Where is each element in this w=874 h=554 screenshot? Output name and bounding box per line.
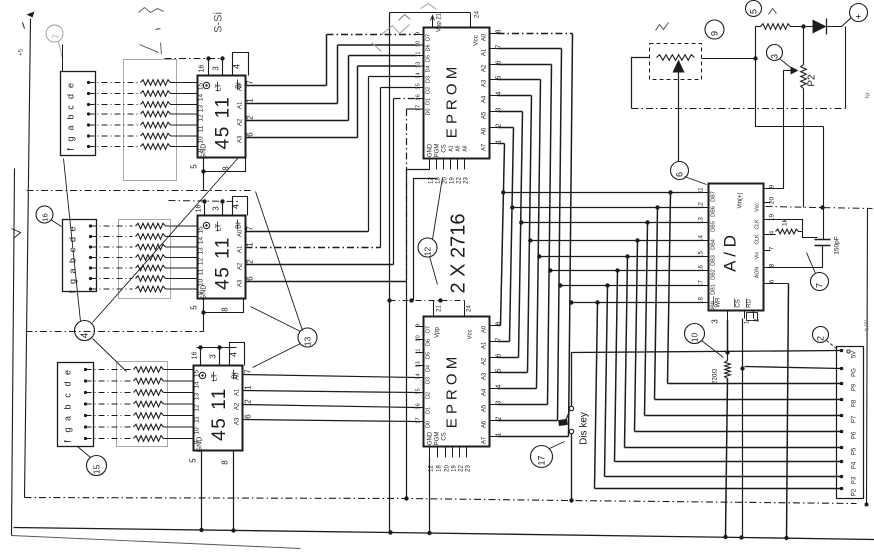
P2 wiper arrow: [791, 67, 799, 75]
data bus EPROM U4 to U1 (4 wires): [327, 34, 416, 36]
A/D WR wire to bottom bus: [727, 320, 729, 353]
svg-text:24: 24: [467, 305, 473, 312]
potentiometer P2 resistor: [803, 27, 805, 65]
svg-text:10: 10: [194, 427, 201, 435]
A/D CS row to connector: [745, 367, 842, 369]
svg-text:A7: A7: [482, 143, 488, 151]
pointer circled 4 up-left to DS1: [64, 159, 81, 322]
svg-text:S-Si: S-Si: [213, 12, 225, 33]
svg-text:3: 3: [212, 206, 221, 211]
EPROM U4 PGM wire down: [414, 179, 437, 301]
svg-text:2 X 2716: 2 X 2716: [448, 213, 470, 293]
U1 ground bracket pins 5,8: [204, 158, 246, 172]
resistor network box RN3: [117, 362, 168, 447]
resistor network box RN2: [119, 220, 171, 299]
svg-text:23: 23: [466, 465, 472, 472]
svg-text:4: 4: [231, 204, 241, 209]
svg-text:g: g: [66, 136, 76, 141]
A/D U6 right pin stubs and numbers: [764, 188, 771, 190]
wire diode node down right side: [845, 27, 847, 109]
EPROM U4 Vcc pin 24: [470, 13, 472, 28]
display connector DS3 box: [58, 363, 94, 447]
svg-text:4: 4: [229, 352, 239, 357]
svg-text:13: 13: [416, 361, 422, 367]
node dot diode anode: [801, 24, 805, 28]
svg-text:A3: A3: [482, 79, 488, 87]
svg-text:7: 7: [815, 283, 825, 288]
svg-text:AGN: AGN: [755, 267, 761, 278]
scribble label above P1: [656, 23, 669, 31]
svg-text:DB1: DB1: [711, 284, 717, 295]
svg-text:e: e: [63, 370, 73, 375]
svg-text:PGM: PGM: [435, 432, 441, 446]
svg-text:16: 16: [196, 205, 203, 213]
output connector J1 box: [837, 347, 864, 499]
U2 pin16 stub: [204, 202, 206, 216]
P2 wire down to A/D Vcc: [803, 89, 805, 208]
svg-text:11: 11: [416, 51, 422, 57]
svg-text:A / D: A / D: [721, 235, 740, 272]
svg-text:17: 17: [416, 417, 422, 423]
circled 4: [75, 321, 95, 341]
svg-text:1k: 1k: [782, 218, 789, 226]
potentiometer P1 resistor: [657, 55, 695, 61]
svg-text:P7: P7: [852, 415, 858, 423]
faint scribble top left: [139, 8, 164, 13]
svg-text:D7: D7: [426, 326, 432, 333]
svg-text:7: 7: [246, 226, 255, 231]
wires RN3 to 4511 U3: [164, 369, 194, 371]
A/D data rows (8 horizontals): [505, 192, 701, 194]
svg-text:A3: A3: [238, 279, 244, 287]
svg-text:5: 5: [190, 305, 199, 310]
svg-text:c: c: [66, 105, 76, 110]
U3 pin3 stub: [219, 348, 221, 366]
display DS3 pin dots: [84, 368, 87, 371]
svg-text:Dis key: Dis key: [579, 412, 590, 445]
svg-text:8: 8: [221, 460, 230, 465]
potentiometer P1 wiper arrow: [673, 60, 685, 73]
4511 decoder U1 body: [198, 76, 246, 158]
svg-text:13: 13: [198, 247, 205, 255]
svg-text:D5: D5: [426, 352, 432, 359]
svg-text:A9: A9: [456, 145, 462, 151]
svg-text:9: 9: [198, 291, 205, 295]
ground rail dash-dot under U1: [27, 190, 251, 192]
circled 9: [705, 20, 724, 39]
wires display DS3 to resistors RN3: [86, 369, 131, 371]
svg-text:D2: D2: [426, 87, 432, 94]
svg-text:6: 6: [675, 172, 685, 177]
svg-text:6: 6: [246, 132, 255, 137]
pointer circled 2 to connector: [827, 341, 837, 349]
svg-text:D4: D4: [426, 65, 432, 72]
svg-text:CLK: CLK: [755, 219, 761, 230]
Vcc wire top to left vertical: [390, 12, 471, 14]
svg-text:2: 2: [246, 115, 255, 120]
svg-text:A5: A5: [482, 111, 488, 119]
svg-text:CLK: CLK: [755, 234, 761, 245]
EPROM U4 GND wire to bus1: [407, 170, 430, 498]
svg-text:d: d: [66, 94, 76, 99]
svg-text:11: 11: [194, 416, 201, 423]
svg-text:A0: A0: [238, 83, 244, 91]
svg-text:21: 21: [437, 305, 443, 312]
resistor network RN1 elements: [141, 80, 171, 86]
circled 16: [36, 206, 53, 223]
P1 wiper wire down to circled 6: [678, 73, 680, 162]
svg-text:12: 12: [429, 177, 435, 184]
svg-text:20: 20: [769, 197, 776, 205]
pointer circled 4 up-right to U1 area: [93, 158, 239, 323]
pointer circled 15 to DS3: [78, 447, 91, 458]
svg-text:9: 9: [710, 31, 720, 36]
svg-text:150pF: 150pF: [834, 236, 841, 254]
resistor 1k: [766, 234, 776, 236]
U3 pin16 stub: [200, 348, 202, 366]
right edge vertical to connector: [867, 209, 868, 506]
svg-text:A4: A4: [482, 388, 488, 396]
U1 top tie line (pins 16,3) dash-dot rail: [165, 58, 223, 60]
EPROM U5 Vpp 21 and Vcc 24 top stubs: [433, 301, 435, 317]
svg-text:DB4: DB4: [711, 239, 717, 250]
A/D converter U6 body: [709, 184, 764, 311]
svg-text:E P R O M: E P R O M: [444, 357, 461, 428]
svg-text:7: 7: [52, 34, 61, 39]
svg-text:6: 6: [769, 279, 776, 283]
svg-text:24: 24: [474, 11, 481, 19]
svg-text:D0: D0: [426, 421, 432, 428]
resistor network box RN1: [124, 60, 177, 181]
svg-text:Vin: Vin: [755, 252, 761, 260]
svg-text:19: 19: [450, 177, 456, 184]
resistor network RN2 elements: [136, 223, 166, 229]
svg-text:220Ω: 220Ω: [712, 369, 719, 385]
svg-text:A1: A1: [238, 101, 244, 109]
svg-text:12: 12: [198, 258, 205, 266]
clock RC: pin19 wire: [766, 220, 818, 238]
svg-text:16: 16: [416, 403, 422, 409]
svg-text:A1: A1: [449, 145, 455, 151]
svg-text:12: 12: [194, 404, 201, 412]
svg-text:7: 7: [244, 369, 253, 374]
svg-text:e: e: [66, 83, 76, 88]
P1 right terminal wire: [702, 58, 756, 60]
svg-text:P9: P9: [852, 383, 858, 391]
svg-text:DB2: DB2: [711, 269, 717, 280]
svg-text:14: 14: [198, 94, 205, 102]
display DS2 pin dots: [89, 224, 92, 227]
svg-text:P4: P4: [852, 461, 858, 469]
display connector DS2 box: [63, 220, 97, 292]
U1 pin3 stub: [222, 59, 224, 76]
wire display DS1 top stub: [62, 45, 64, 72]
svg-text:A3: A3: [235, 417, 241, 425]
svg-text:45 11: 45 11: [209, 387, 230, 441]
pointer circled 10 to resistor: [702, 341, 724, 358]
svg-text:13: 13: [699, 217, 705, 224]
svg-text:13: 13: [303, 337, 313, 347]
svg-text:A0: A0: [482, 33, 488, 41]
wires display DS2 to resistors RN2: [91, 225, 133, 227]
U2 top tie line: [169, 201, 239, 202]
svg-text:20: 20: [445, 465, 451, 472]
svg-text:22: 22: [459, 465, 465, 472]
svg-text:A0: A0: [482, 325, 488, 333]
svg-text:12: 12: [423, 247, 433, 257]
svg-text:16: 16: [199, 65, 206, 73]
svg-text:D6: D6: [426, 44, 432, 51]
A/D U6 bottom pins WR CS RD: [727, 311, 729, 320]
svg-text:11: 11: [416, 348, 422, 354]
svg-text:A2: A2: [235, 402, 241, 410]
svg-text:CS: CS: [736, 299, 742, 307]
svg-text:14: 14: [416, 373, 422, 380]
svg-text:P5: P5: [852, 447, 858, 455]
svg-text:D0: D0: [426, 108, 432, 115]
svg-text:D4: D4: [426, 365, 432, 372]
4511 decoder U2 body: [198, 216, 246, 299]
svg-text:11: 11: [198, 268, 205, 275]
svg-text:LT: LT: [212, 373, 219, 381]
svg-text:9: 9: [198, 148, 205, 152]
EPROM U4 right pin stubs, numbers and A labels: [490, 33, 498, 35]
svg-text:10: 10: [198, 279, 205, 287]
svg-text:9: 9: [194, 440, 201, 444]
svg-text:a: a: [68, 268, 78, 273]
EPROM U5 bottom pins: [429, 447, 431, 458]
circled 13: [298, 328, 317, 347]
svg-text:16: 16: [41, 213, 50, 221]
svg-text:45 11: 45 11: [213, 96, 234, 150]
svg-text:3: 3: [212, 66, 221, 71]
svg-text:b: b: [63, 404, 73, 409]
svg-text:4: 4: [769, 230, 776, 234]
svg-text:D3: D3: [426, 76, 432, 83]
svg-text:A6: A6: [482, 127, 488, 135]
svg-text:Vcc: Vcc: [755, 203, 761, 212]
ground rail dash-dot under U2: [26, 331, 204, 333]
svg-text:9: 9: [416, 32, 422, 35]
svg-text:16: 16: [416, 94, 422, 100]
Dis key top wire to connector row: [572, 351, 842, 407]
svg-text:6: 6: [244, 414, 253, 419]
svg-text:5V: 5V: [852, 351, 858, 358]
svg-text:DB6: DB6: [711, 206, 717, 217]
svg-text:A7: A7: [482, 436, 488, 444]
svg-text:8: 8: [221, 307, 230, 312]
svg-text:CS: CS: [442, 432, 448, 440]
wire diode to +V circle: [827, 18, 852, 27]
svg-text:Vpp 21: Vpp 21: [437, 12, 443, 32]
circled 3: [767, 45, 783, 61]
svg-text:13: 13: [416, 62, 422, 68]
svg-text:1: 1: [246, 242, 255, 247]
resistor 220 ohm: [725, 350, 729, 354]
svg-text:7: 7: [246, 80, 255, 85]
svg-text:b.W: b.W: [865, 320, 871, 331]
svg-text:D3: D3: [426, 377, 432, 384]
svg-text:LT: LT: [216, 223, 223, 231]
svg-text:P2: P2: [807, 74, 818, 87]
svg-text:DB7: DB7: [711, 191, 717, 202]
svg-text:2: 2: [816, 336, 826, 341]
svg-text:18: 18: [437, 465, 443, 472]
U2 pin4 bracket: [233, 197, 248, 216]
svg-text:CS: CS: [442, 144, 448, 152]
EPROM U5 right pin stubs and numbers: [490, 325, 498, 327]
potentiometer P1 box: [650, 44, 702, 80]
svg-text:Nr: Nr: [866, 92, 872, 98]
svg-text:A0: A0: [238, 229, 244, 237]
svg-text:A2: A2: [238, 262, 244, 270]
svg-text:b: b: [66, 114, 76, 119]
svg-text:A1: A1: [235, 388, 241, 396]
svg-text:RD: RD: [747, 299, 753, 308]
svg-text:16: 16: [192, 352, 199, 360]
circled 2: [813, 327, 829, 343]
P1 left terminal wire: [632, 58, 650, 109]
svg-text:14: 14: [194, 381, 201, 389]
ground bus1 dash-dot: [25, 498, 857, 504]
left inner border line: [25, 19, 31, 498]
svg-text:D1: D1: [426, 407, 432, 414]
border arrow mark left: [12, 229, 21, 239]
svg-text:c: c: [63, 393, 73, 398]
svg-text:15: 15: [92, 465, 102, 475]
address bus staircase EPROM U4 to A/D rows to EPROM U5: [498, 143, 505, 145]
svg-text:DB3: DB3: [711, 255, 717, 266]
svg-text:P6: P6: [852, 431, 858, 439]
pointer circled 17 to switch: [550, 442, 565, 449]
svg-text:PG: PG: [852, 368, 858, 377]
svg-text:11: 11: [198, 125, 205, 132]
U3 pin1 mark and LT BI labels: [199, 372, 205, 378]
EPROM U5 left pin stubs and labels: [416, 326, 424, 328]
svg-text:A2: A2: [238, 118, 244, 126]
Dis key switch: [569, 406, 573, 410]
svg-text:Vcc: Vcc: [468, 329, 474, 339]
capacitor 150pF: [823, 127, 825, 208]
EPROM U5 GND wire to bottom bus: [429, 458, 431, 533]
svg-text:15: 15: [699, 251, 705, 258]
U2 pin1 mark and LT BI labels: [203, 222, 209, 228]
svg-text:A4: A4: [482, 95, 488, 103]
svg-text:9: 9: [416, 324, 422, 327]
svg-text:BI: BI: [236, 222, 243, 229]
svg-text:9: 9: [769, 184, 776, 188]
svg-text:10: 10: [690, 333, 700, 343]
svg-text:18: 18: [436, 177, 442, 184]
circled 17: [531, 446, 553, 468]
U1 pin1 mark and LT BI labels: [203, 82, 209, 88]
left outer border: [12, 169, 15, 536]
svg-text:10: 10: [198, 136, 205, 144]
circled 6: [671, 162, 689, 180]
svg-text:2: 2: [244, 399, 253, 404]
A/D Vin+ wire down to bottom bus: [787, 284, 789, 539]
Vcc vertical line x389: [389, 13, 391, 533]
EPROM U4 (2716) body: [424, 28, 490, 159]
EPROM U4 Vpp pin 21: [432, 17, 434, 28]
svg-text:A3: A3: [482, 372, 488, 380]
wires display DS1 to resistors RN1: [89, 82, 138, 84]
svg-text:A1: A1: [238, 245, 244, 253]
svg-text:A1: A1: [482, 341, 488, 349]
resistor network RN3 elements: [134, 367, 164, 373]
P2 wiper wire to A/D pin 9: [766, 71, 791, 189]
pointer circled 12 to EPROM U4: [433, 178, 443, 240]
svg-text:A5: A5: [482, 404, 488, 412]
faint marks above EPROM U4: [399, 15, 411, 21]
svg-text:17: 17: [416, 105, 422, 111]
svg-text:g: g: [63, 427, 73, 432]
pointer circled 13 to U2: [251, 307, 301, 332]
border top mark: [27, 12, 35, 18]
svg-text:23: 23: [464, 177, 470, 184]
svg-text:13: 13: [194, 393, 201, 401]
scribble near circled 5: [769, 9, 777, 15]
U1 pin4 bracket: [233, 53, 249, 76]
svg-text:+: +: [854, 14, 864, 19]
svg-text:b: b: [68, 258, 78, 263]
svg-text:12: 12: [198, 114, 205, 122]
wires U3 inputs to EPROM U5 data pins: [243, 375, 416, 378]
svg-text:8: 8: [769, 263, 776, 267]
svg-text:e: e: [68, 226, 78, 231]
svg-text:3: 3: [711, 319, 720, 324]
svg-text:a: a: [66, 125, 76, 130]
svg-text:13: 13: [198, 105, 205, 113]
svg-text:P8: P8: [852, 399, 858, 407]
svg-text:3: 3: [209, 354, 218, 359]
svg-text:12: 12: [699, 202, 705, 209]
circled +V: [850, 4, 868, 22]
svg-text:22: 22: [457, 177, 463, 184]
svg-text:18: 18: [699, 297, 705, 304]
svg-text:14: 14: [416, 72, 422, 79]
circled 7 display pointer: [46, 25, 63, 42]
svg-text:DB5: DB5: [711, 221, 717, 232]
svg-text:a: a: [63, 416, 73, 421]
4511 decoder U3 body: [194, 366, 243, 451]
drop wires rows to output connector: [668, 193, 671, 384]
A/D CS wire to bottom bus: [742, 319, 744, 538]
diode D1: [813, 20, 827, 34]
svg-text:E P R O M: E P R O M: [444, 67, 461, 138]
EPROM U5 (2716) body: [424, 317, 490, 447]
svg-text:10: 10: [416, 335, 422, 341]
circled 12: [418, 238, 437, 257]
Vpp/Vcc tie line above EPROM U5: [390, 300, 465, 302]
pointer circled 6 to A/D: [685, 177, 707, 185]
svg-text:17: 17: [537, 455, 547, 465]
svg-text:3: 3: [770, 54, 780, 59]
svg-text:A1: A1: [482, 48, 488, 56]
svg-text:4: 4: [232, 64, 242, 69]
Dis key bottom wire to bus: [571, 434, 573, 501]
EPROM U4 bottom pins GND PGM CS labels: [429, 159, 431, 170]
svg-text:4: 4: [80, 332, 91, 338]
svg-text:2: 2: [246, 259, 255, 264]
pointer circled 16 to DS2: [51, 220, 62, 227]
pointer circled 7 to cap: [807, 253, 816, 274]
svg-text:A6: A6: [482, 420, 488, 428]
svg-text:D6: D6: [426, 339, 432, 346]
svg-text:5: 5: [190, 164, 199, 169]
small box at A/D pin1: [747, 313, 758, 321]
svg-text:15: 15: [416, 388, 422, 394]
